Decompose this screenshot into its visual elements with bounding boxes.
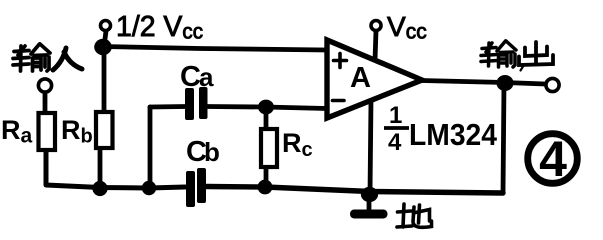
svg-text:1: 1 [389,102,402,129]
svg-text:A: A [350,62,371,94]
svg-text:4: 4 [539,131,567,187]
svg-text:4: 4 [388,129,402,156]
svg-text:Ca: Ca [180,61,214,93]
svg-text:LM324: LM324 [409,117,498,152]
svg-text:Cb: Cb [186,136,220,168]
